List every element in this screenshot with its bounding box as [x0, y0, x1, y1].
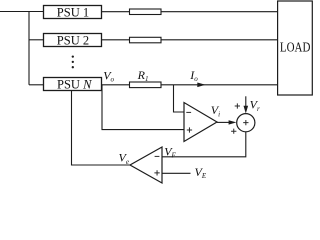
arrow: Io on row N wire — [197, 83, 205, 88]
wire: U2 output Ve back to PSU N control — [72, 91, 131, 166]
wire: bus stub to PSU 2 — [29, 39, 44, 41]
LOAD box — [278, 1, 313, 95]
PSU 1 box — [44, 6, 102, 19]
op-amp U2 (error amp) — [130, 147, 162, 183]
wire: row 2 resistor to LOAD — [161, 39, 278, 41]
resistor (row 1) — [130, 9, 162, 15]
arrow: Vr into summer — [244, 106, 249, 114]
svg-text:PSU N: PSU N — [57, 78, 92, 92]
wire: PSU 1 output to resistor — [102, 11, 130, 13]
dots: ellipsis between PSU 2 and PSU N — [72, 55, 74, 57]
resistor R1 — [130, 82, 162, 88]
PSU 2 box — [44, 34, 102, 47]
minus sign U1 — [186, 111, 191, 113]
plus sign inside summer — [243, 120, 248, 125]
wire: U1 output to summer — [217, 121, 230, 123]
wire: left bus vertical — [28, 12, 30, 85]
plus sign at Vi input — [231, 129, 236, 134]
PSU N box — [44, 78, 102, 91]
minus sign U2 — [155, 155, 160, 157]
wire: top input feeder — [0, 11, 44, 13]
summing junction S1 — [237, 114, 255, 132]
wire: bus stub to PSU N — [29, 84, 44, 86]
svg-text:LOAD: LOAD — [280, 41, 311, 56]
wire: VE input to U2 + input — [162, 172, 191, 174]
wire: Vr input shaft — [245, 96, 247, 107]
wire: node Vo tap down to U1 + input — [102, 85, 184, 130]
svg-text:PSU 1: PSU 1 — [57, 6, 89, 20]
wire: summer output down to U2 - input — [162, 132, 246, 157]
op-amp U1 (current sense) — [184, 103, 217, 142]
wire: PSU 2 output to resistor — [102, 39, 130, 41]
wire: PSU N output to resistor R1 — [102, 84, 130, 86]
plus sign U2 — [154, 170, 159, 175]
plus sign U1 — [187, 127, 192, 132]
resistor (row 2) — [130, 37, 162, 43]
svg-text:PSU 2: PSU 2 — [57, 34, 89, 48]
wire: row 1 resistor to LOAD — [161, 11, 278, 13]
plus sign at Vr input — [235, 103, 240, 108]
wire: row N resistor to LOAD — [161, 84, 278, 86]
arrow: Vi into summer — [229, 120, 237, 124]
wire: R1 right tap down to U1 - input — [174, 85, 185, 112]
